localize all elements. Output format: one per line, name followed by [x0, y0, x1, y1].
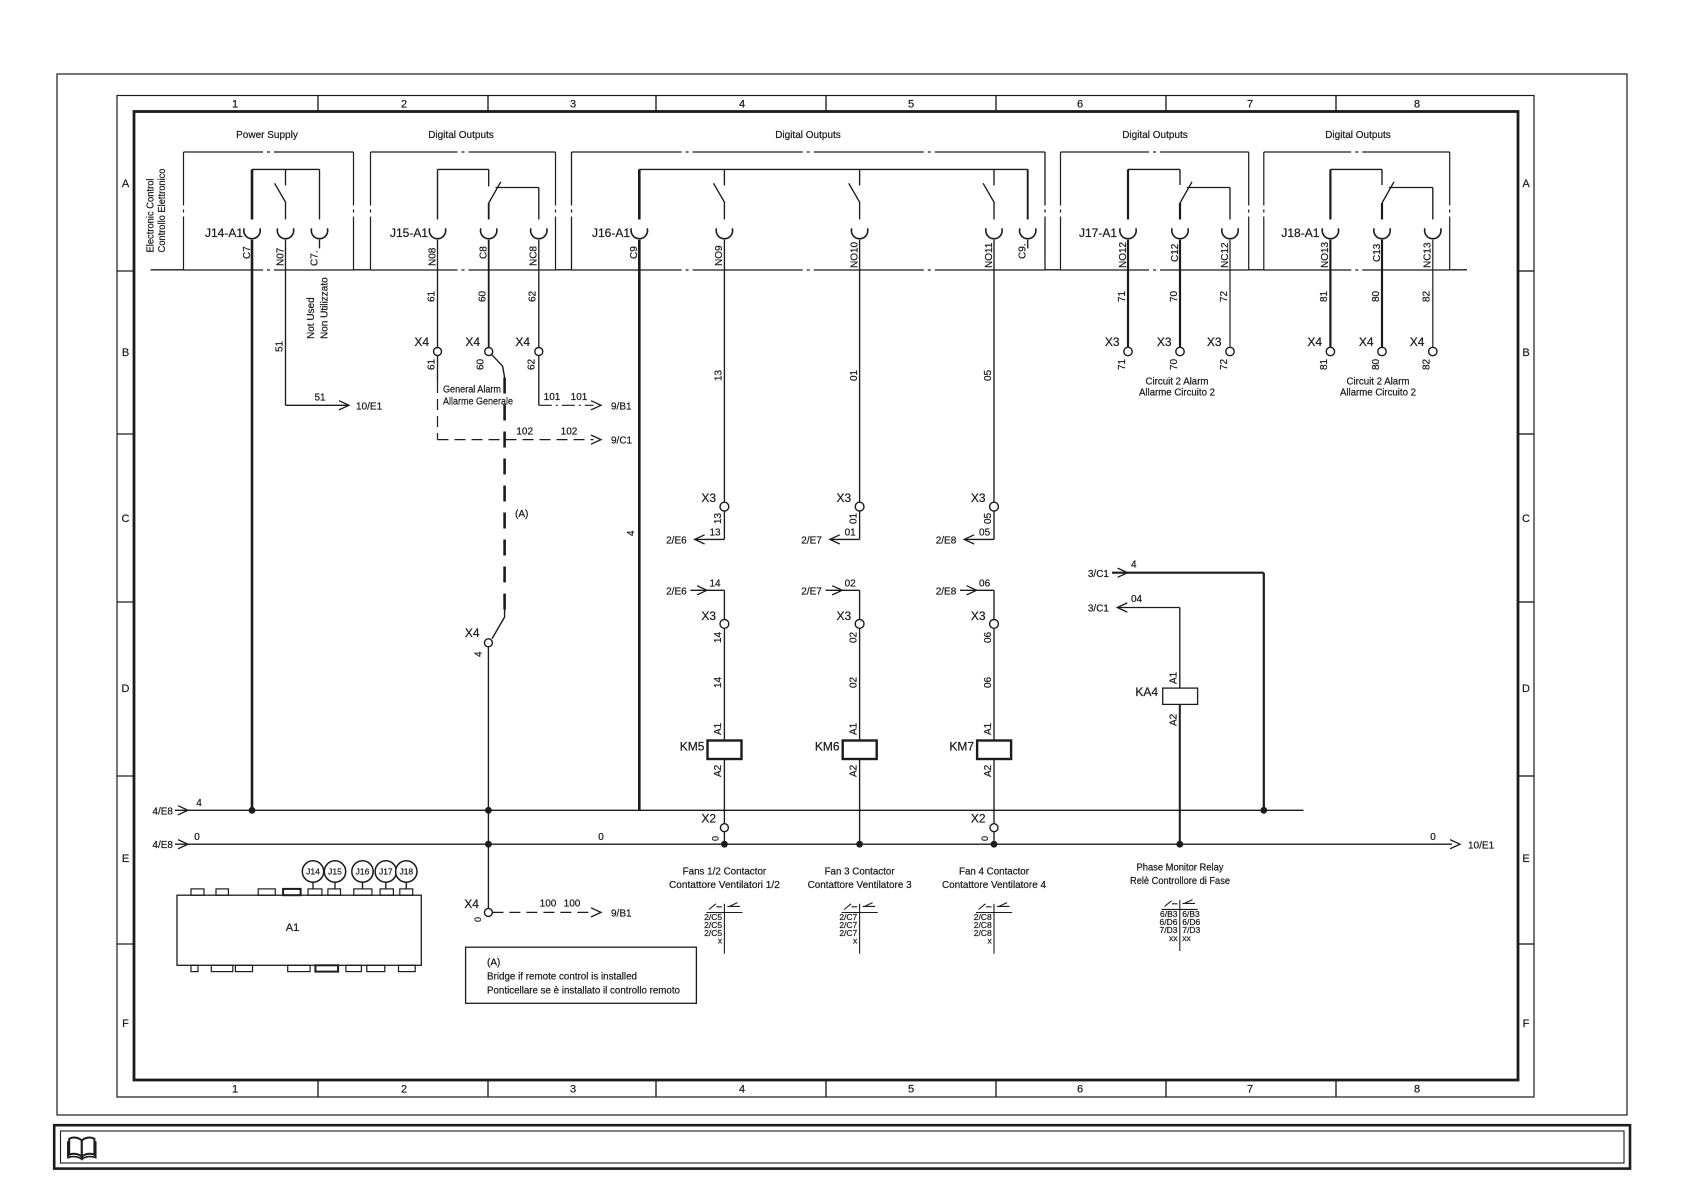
- terminal X4 circle net 62: [535, 348, 543, 356]
- svg-text:J14-A1: J14-A1: [205, 226, 243, 240]
- svg-text:Circuit 2 Alarm: Circuit 2 Alarm: [1347, 377, 1410, 388]
- svg-text:62: 62: [528, 290, 539, 302]
- svg-text:X3: X3: [1105, 335, 1120, 349]
- wire from bus 0 down to X4 100: [487, 844, 489, 908]
- svg-text:Contattore Ventilatori 1/2: Contattore Ventilatori 1/2: [669, 880, 780, 891]
- svg-text:0: 0: [980, 836, 990, 841]
- cross-reference table KM6: [859, 904, 861, 954]
- svg-text:C7.: C7.: [309, 250, 320, 266]
- svg-text:101: 101: [544, 392, 561, 403]
- junction dot KA4 on bus 0: [1177, 841, 1183, 847]
- svg-text:02: 02: [845, 578, 857, 589]
- svg-text:(A): (A): [515, 509, 528, 520]
- terminal X3 circle net 05: [990, 502, 999, 511]
- svg-text:X3: X3: [1157, 335, 1172, 349]
- wire from coil KM6 down to bus 0: [859, 759, 861, 844]
- terminal X3 circle net 71: [1124, 347, 1132, 355]
- svg-text:Electronic Control: Electronic Control: [145, 179, 156, 253]
- svg-text:x: x: [718, 936, 723, 946]
- connector arc J14 pin C7: [244, 228, 260, 238]
- svg-text:X2: X2: [971, 811, 986, 825]
- svg-text:Fans 1/2 Contactor: Fans 1/2 Contactor: [683, 866, 767, 877]
- wire between bus 4 and bus 0: [487, 810, 489, 844]
- wire net 60 C8 down to terminal (thick): [488, 240, 490, 348]
- wire net 04 to 3/C1: [1117, 607, 1180, 609]
- terminal X3 circle net 70: [1176, 347, 1184, 355]
- svg-text:4: 4: [196, 798, 202, 809]
- svg-text:04: 04: [1131, 594, 1143, 605]
- contact fixed stub at x=724.4: [723, 169, 725, 185]
- svg-text:2: 2: [401, 99, 407, 111]
- svg-text:2: 2: [401, 1084, 407, 1096]
- svg-text:4/E8: 4/E8: [152, 840, 173, 851]
- terminal X4 circle net 81: [1326, 347, 1334, 355]
- terminal X2 circle (KM5): [720, 824, 728, 832]
- svg-text:NO9: NO9: [714, 245, 725, 266]
- svg-text:X3: X3: [701, 491, 716, 505]
- svg-text:13: 13: [709, 527, 721, 538]
- svg-text:10/E1: 10/E1: [1468, 841, 1495, 852]
- wire J17-A1 pin NO12 upper (thick): [1127, 169, 1129, 219]
- svg-text:J16: J16: [356, 867, 370, 877]
- NC bridge wire C13-NC13: [1389, 187, 1433, 189]
- svg-text:X4: X4: [1359, 335, 1374, 349]
- svg-text:9/B1: 9/B1: [611, 401, 632, 412]
- svg-text:J17: J17: [379, 867, 393, 877]
- column ticks bottom band: [317, 1080, 319, 1097]
- wire net 04 down to relay KA4: [1179, 608, 1181, 689]
- relay contact J16 top edge: [639, 168, 1027, 170]
- svg-text:72: 72: [1219, 358, 1230, 370]
- svg-text:KM6: KM6: [815, 739, 840, 753]
- wire net 72 down to terminal X3: [1229, 240, 1231, 348]
- svg-text:X4: X4: [465, 626, 480, 640]
- wire net 51 from C7 down to bus 4 (thick): [251, 240, 254, 811]
- svg-text:70: 70: [1169, 290, 1180, 302]
- junction dot KM5 on bus 0: [722, 841, 728, 847]
- wire 62 below terminal: [538, 356, 540, 406]
- svg-text:NO11: NO11: [984, 242, 995, 268]
- svg-text:05: 05: [983, 512, 994, 524]
- svg-text:B: B: [1522, 347, 1529, 359]
- svg-text:82: 82: [1422, 358, 1433, 370]
- wire 61 below terminal: [437, 356, 439, 383]
- boundary line segments between group boxes: [151, 269, 184, 271]
- wire J14 pin C7 upper (thick): [251, 169, 254, 219]
- svg-text:xx: xx: [1182, 933, 1191, 943]
- svg-text:A: A: [122, 178, 130, 190]
- svg-text:X4: X4: [464, 897, 479, 911]
- junction dot KM6 on bus 0: [857, 841, 863, 847]
- svg-text:D: D: [122, 683, 130, 695]
- note box (A) bridge remark: [466, 947, 697, 1003]
- svg-text:C9.: C9.: [1018, 243, 1029, 259]
- svg-text:X3: X3: [971, 609, 986, 623]
- svg-text:7: 7: [1247, 1084, 1253, 1096]
- svg-text:3/C1: 3/C1: [1088, 604, 1110, 615]
- contactor coil KM6: [843, 741, 877, 760]
- dash-dot group box Digital Outputs (J16): [572, 151, 1046, 153]
- contact fixed stub C8: [488, 169, 490, 186]
- svg-text:4: 4: [474, 651, 485, 657]
- svg-text:02: 02: [848, 676, 859, 688]
- contact fixed stub at x=994.0: [993, 169, 995, 185]
- svg-text:A1: A1: [983, 722, 994, 735]
- svg-text:J15-A1: J15-A1: [390, 226, 428, 240]
- svg-text:KM7: KM7: [949, 739, 974, 753]
- bridge switch arm from X4 60: [492, 354, 505, 377]
- connector arc J15 pin NC8: [531, 228, 547, 238]
- svg-text:2/E6: 2/E6: [666, 586, 687, 597]
- dashed wire net 100 to 9/B1: [492, 911, 593, 913]
- svg-text:Bridge if remote control is in: Bridge if remote control is installed: [487, 972, 637, 983]
- wire 02 down to X3: [859, 590, 861, 619]
- svg-text:05: 05: [983, 369, 994, 381]
- svg-text:Power Supply: Power Supply: [236, 130, 298, 141]
- contactor coil KM5: [708, 741, 742, 760]
- junction dot net 4 on bus 4: [1261, 807, 1267, 813]
- svg-text:NC13: NC13: [1423, 242, 1434, 268]
- footer bar inner: [61, 1131, 1625, 1163]
- svg-text:Digital Outputs: Digital Outputs: [428, 130, 494, 141]
- svg-text:0: 0: [710, 836, 720, 841]
- svg-text:3: 3: [570, 99, 576, 111]
- svg-text:X3: X3: [837, 609, 852, 623]
- svg-text:60: 60: [476, 358, 487, 370]
- svg-text:KA4: KA4: [1135, 685, 1158, 699]
- svg-text:61: 61: [426, 290, 437, 302]
- wire 06 down to coil KM7: [993, 628, 995, 740]
- connector arc J16 pin C9: [631, 228, 647, 238]
- terminal X3 circle net 14: [720, 620, 729, 629]
- svg-text:NC8: NC8: [529, 246, 540, 266]
- incoming wire net 06: [960, 589, 994, 591]
- wire from coil KM7 down to X2: [993, 759, 995, 824]
- cross-reference table KM7: [993, 904, 995, 954]
- svg-text:J18: J18: [399, 867, 413, 877]
- wire N07 to connector: [285, 203, 287, 220]
- relay contact J17-A1 top edge: [1128, 168, 1180, 170]
- bus 0 outgoing arrow to 10/E1: [1450, 840, 1460, 849]
- svg-text:X4: X4: [1410, 335, 1425, 349]
- dash-dot group box Power Supply (J14): [184, 151, 354, 153]
- svg-text:J15: J15: [328, 867, 342, 877]
- svg-text:Contattore Ventilatore 4: Contattore Ventilatore 4: [942, 880, 1046, 891]
- svg-text:2/E7: 2/E7: [801, 586, 822, 597]
- svg-text:xx: xx: [1169, 933, 1178, 943]
- svg-text:4: 4: [626, 530, 637, 536]
- svg-text:2/E6: 2/E6: [666, 535, 687, 546]
- svg-text:1: 1: [232, 1084, 238, 1096]
- svg-text:13: 13: [713, 512, 724, 524]
- wire 02 down to coil KM6: [859, 628, 861, 740]
- svg-text:x: x: [987, 936, 992, 946]
- wire net 70 down to terminal X3: [1179, 240, 1181, 348]
- wire net 81 down to terminal X4: [1329, 240, 1331, 348]
- svg-text:4: 4: [1131, 559, 1137, 570]
- dash-dot group box Digital Outputs (J15): [371, 151, 556, 153]
- svg-text:C: C: [122, 513, 130, 525]
- contactor coil KM7: [977, 741, 1011, 760]
- wire net 71 down to terminal X3: [1127, 240, 1129, 348]
- contact moving arm C8 (to NC bridge): [489, 182, 501, 203]
- dashed wire net 102 to 9/C1: [438, 439, 594, 441]
- svg-text:X3: X3: [701, 609, 716, 623]
- svg-text:71: 71: [1117, 290, 1128, 302]
- connector arc J16 pin NO11: [986, 228, 1002, 238]
- svg-text:Allarme Generale: Allarme Generale: [443, 397, 513, 408]
- svg-text:62: 62: [527, 358, 538, 370]
- contact fixed stub at x=859.6: [859, 169, 861, 185]
- svg-text:06: 06: [983, 676, 994, 688]
- junction dot C7 wire on bus 4: [249, 807, 255, 813]
- terminal X4 circle net 80: [1378, 347, 1386, 355]
- wire net 61 N08 down to terminal: [437, 240, 439, 348]
- wire J18-A1 pin NO13 upper (thick): [1329, 169, 1331, 219]
- svg-text:N07: N07: [275, 247, 286, 266]
- wire net 4 from 3/C1 (thick): [1112, 572, 1264, 574]
- wire net 13 from connector down to X3 (KM5): [723, 240, 725, 502]
- border middle frame: [117, 96, 1534, 1098]
- footer bar outer: [54, 1125, 1630, 1168]
- svg-text:C: C: [1522, 513, 1530, 525]
- svg-text:1: 1: [232, 99, 238, 111]
- column ticks top band: [317, 96, 319, 112]
- svg-text:4: 4: [739, 99, 745, 111]
- connector arc J15 pin C8: [481, 228, 497, 238]
- svg-text:01: 01: [845, 527, 857, 538]
- electronic unit A1: [177, 895, 421, 965]
- svg-text:X3: X3: [1207, 335, 1222, 349]
- svg-text:J17-A1: J17-A1: [1079, 226, 1117, 240]
- stub below arc C7.: [319, 240, 321, 249]
- wire 01 to outgoing arrow: [859, 511, 861, 539]
- border inner thick frame: [134, 112, 1518, 1081]
- contact fixed stub C13: [1381, 169, 1383, 185]
- svg-text:2/E7: 2/E7: [801, 535, 822, 546]
- terminal X4 circle net 100: [484, 908, 492, 916]
- wire 14 down to X3: [723, 590, 725, 619]
- svg-text:Circuit 2 Alarm: Circuit 2 Alarm: [1146, 377, 1209, 388]
- terminal X3 circle net 13: [720, 502, 729, 511]
- svg-text:NO10: NO10: [849, 241, 860, 268]
- svg-text:7: 7: [1247, 99, 1253, 111]
- svg-text:X3: X3: [971, 491, 986, 505]
- svg-text:9/C1: 9/C1: [611, 436, 633, 447]
- svg-text:70: 70: [1169, 358, 1180, 370]
- wire net 4 from C9 down to bus 4 (thick): [638, 240, 641, 811]
- svg-text:F: F: [122, 1018, 129, 1030]
- svg-text:3/C1: 3/C1: [1088, 569, 1110, 580]
- NC bridge wire C12-NC12: [1187, 187, 1230, 189]
- svg-text:81: 81: [1319, 358, 1330, 370]
- svg-text:72: 72: [1219, 290, 1230, 302]
- svg-text:80: 80: [1371, 358, 1382, 370]
- svg-text:E: E: [122, 853, 129, 865]
- svg-text:2/E8: 2/E8: [936, 535, 957, 546]
- svg-text:51: 51: [275, 340, 286, 352]
- svg-text:5: 5: [908, 1084, 914, 1096]
- svg-text:KM5: KM5: [680, 739, 705, 753]
- wire 05 to outgoing arrow: [993, 511, 995, 539]
- connector arc J14 pin C7.: [311, 228, 327, 238]
- junction dot bridge wire on bus 0: [486, 841, 492, 847]
- wire J14 pin C7. upper: [319, 169, 321, 219]
- svg-text:A2: A2: [983, 764, 994, 777]
- svg-text:A1: A1: [286, 922, 299, 934]
- wire net 82 down to terminal X4: [1432, 240, 1434, 348]
- svg-text:0: 0: [473, 917, 483, 922]
- svg-text:Phase Monitor Relay: Phase Monitor Relay: [1137, 862, 1224, 873]
- svg-text:J14: J14: [306, 867, 320, 877]
- svg-text:General Alarm: General Alarm: [443, 385, 501, 396]
- dash-dot wire net 101 to 9/B1: [539, 404, 594, 406]
- dashed wire 61 to 102 line: [437, 382, 439, 440]
- svg-text:Not Used: Not Used: [306, 297, 317, 339]
- connector arc J18-A1 pin NC13: [1425, 228, 1441, 238]
- incoming wire net 14: [690, 589, 724, 591]
- svg-text:Digital Outputs: Digital Outputs: [1122, 130, 1188, 141]
- relay contact J15 top edge: [438, 168, 489, 170]
- svg-text:A1: A1: [713, 722, 724, 735]
- svg-text:6: 6: [1077, 99, 1083, 111]
- cross-reference table KA4: [1179, 900, 1181, 951]
- wire net 51 horizontal to 10/E1: [286, 404, 350, 406]
- wire C12 to connector (thick): [1179, 203, 1181, 220]
- svg-text:A2: A2: [713, 764, 724, 777]
- svg-text:Fan 3 Contactor: Fan 3 Contactor: [825, 866, 896, 877]
- svg-text:Ponticellare se è installato i: Ponticellare se è installato il controll…: [487, 986, 680, 997]
- svg-text:X3: X3: [837, 491, 852, 505]
- svg-text:X4: X4: [465, 335, 480, 349]
- svg-text:A1: A1: [848, 722, 859, 735]
- connector arc J17-A1 pin NO12: [1120, 228, 1136, 238]
- svg-text:0: 0: [1430, 832, 1436, 843]
- svg-text:X4: X4: [414, 335, 429, 349]
- terminal X3 circle net 02: [855, 620, 864, 629]
- wire J16 pin C9. upper: [1027, 169, 1029, 219]
- incoming wire net 02: [826, 589, 860, 591]
- svg-text:X4: X4: [515, 335, 530, 349]
- svg-text:101: 101: [571, 392, 588, 403]
- terminal X4 circle net 61: [434, 348, 442, 356]
- terminal X4 circle net 82: [1429, 347, 1437, 355]
- svg-text:F: F: [1523, 1018, 1530, 1030]
- svg-text:5: 5: [908, 99, 914, 111]
- terminal X3 circle net 01: [855, 502, 864, 511]
- junction dot KM7 on bus 0: [991, 841, 997, 847]
- svg-text:02: 02: [848, 631, 859, 643]
- svg-text:D: D: [1522, 683, 1530, 695]
- svg-text:82: 82: [1422, 290, 1433, 302]
- wire KA4 down to bus 0: [1179, 704, 1181, 844]
- svg-text:01: 01: [849, 369, 860, 381]
- svg-text:14: 14: [713, 676, 724, 688]
- svg-text:100: 100: [540, 898, 557, 909]
- wire J15 pin NC8 upper: [538, 188, 540, 220]
- dash-dot group box Digital Outputs (J18): [1264, 151, 1450, 153]
- wire C8 to connector: [488, 203, 490, 220]
- svg-text:3: 3: [570, 1084, 576, 1096]
- wire J16 pin C9 upper (thick): [638, 169, 641, 219]
- contact moving arm: [849, 183, 860, 203]
- wire to connector: [723, 203, 725, 220]
- svg-text:61: 61: [426, 358, 437, 370]
- contact fixed stub N07: [285, 169, 287, 185]
- svg-text:80: 80: [1371, 290, 1382, 302]
- bus wire net 4: [175, 809, 1304, 811]
- row ticks right band: [1518, 270, 1534, 272]
- wire J17-A1 pin NC12 upper: [1229, 188, 1231, 220]
- terminal X2 circle (KM7): [990, 824, 998, 832]
- svg-text:J16-A1: J16-A1: [592, 226, 630, 240]
- svg-text:4: 4: [739, 1084, 745, 1096]
- bus wire net 0: [175, 843, 1452, 845]
- svg-text:Non Utilizzato: Non Utilizzato: [320, 277, 331, 339]
- row ticks left band: [117, 270, 134, 272]
- A1 bottom tabs: [191, 965, 198, 971]
- svg-text:B: B: [122, 347, 129, 359]
- dash-dot group box Digital Outputs (J17): [1061, 151, 1249, 153]
- connector arc J17-A1 pin C12: [1172, 228, 1188, 238]
- svg-text:01: 01: [848, 512, 859, 524]
- wire net 05 from connector down to X3 (KM7): [993, 240, 995, 502]
- svg-text:A2: A2: [1169, 713, 1180, 726]
- svg-text:102: 102: [561, 427, 578, 438]
- svg-text:Digital Outputs: Digital Outputs: [1325, 130, 1391, 141]
- relay contact J14 top edge: [252, 168, 320, 170]
- svg-text:E: E: [1522, 853, 1529, 865]
- svg-text:Fan 4 Contactor: Fan 4 Contactor: [959, 866, 1030, 877]
- contact moving arm: [714, 183, 725, 203]
- svg-text:100: 100: [564, 898, 581, 909]
- svg-text:A2: A2: [848, 764, 859, 777]
- contact moving arm C12: [1180, 182, 1192, 203]
- terminal X3 circle net 72: [1226, 347, 1234, 355]
- wire C13 to connector (thick): [1381, 203, 1383, 220]
- svg-text:4/E8: 4/E8: [152, 806, 173, 817]
- connector arc J17-A1 pin NC12: [1222, 228, 1238, 238]
- junction dot bridge wire on bus 4: [486, 807, 492, 813]
- svg-text:Allarme Circuito 2: Allarme Circuito 2: [1139, 387, 1215, 398]
- contact moving arm: [983, 183, 994, 203]
- svg-text:81: 81: [1319, 290, 1330, 302]
- wire J15 pin N08 upper: [437, 169, 439, 219]
- cross-reference table KM5: [723, 904, 725, 954]
- wire net 01 from connector down to X3 (KM6): [859, 240, 861, 502]
- svg-text:Allarme Circuito 2: Allarme Circuito 2: [1340, 387, 1416, 398]
- connector arc J14 pin N07: [277, 228, 293, 238]
- wire net 4 down to bus 4 (thick): [1263, 573, 1265, 811]
- wire to connector: [993, 203, 995, 220]
- svg-text:x: x: [853, 936, 858, 946]
- svg-text:0: 0: [194, 832, 200, 843]
- svg-text:06: 06: [983, 631, 994, 643]
- A1 top tabs: [191, 889, 204, 895]
- connector arc J18-A1 pin C13: [1374, 228, 1390, 238]
- svg-text:A1: A1: [1169, 671, 1180, 684]
- svg-text:NC12: NC12: [1220, 242, 1231, 268]
- connector arc J16 pin NO9: [716, 228, 732, 238]
- relay contact J18-A1 top edge: [1330, 168, 1382, 170]
- svg-text:Controllo Elettronico: Controllo Elettronico: [157, 168, 168, 252]
- wire J18-A1 pin NC13 upper: [1432, 188, 1434, 220]
- svg-text:2/E8: 2/E8: [936, 586, 957, 597]
- wire net 62 NC8 down to terminal: [538, 240, 540, 348]
- svg-text:Digital Outputs: Digital Outputs: [775, 130, 841, 141]
- wire 14 down to coil KM5: [723, 628, 725, 740]
- svg-text:05: 05: [979, 527, 991, 538]
